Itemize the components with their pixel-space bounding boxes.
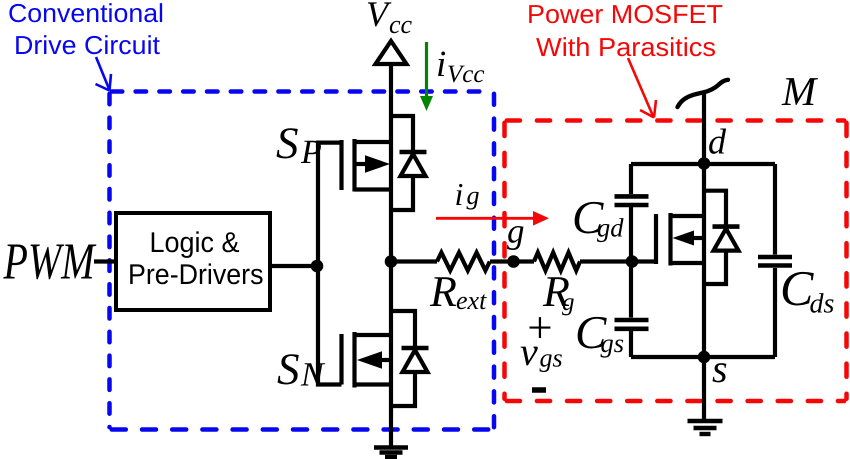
svg-text:cc: cc [389, 10, 413, 39]
svg-text:Conventional: Conventional [8, 0, 164, 28]
svg-text:Pre-Drivers: Pre-Drivers [128, 259, 264, 291]
svg-text:S: S [277, 344, 300, 394]
svg-text:Logic &: Logic & [150, 227, 240, 259]
svg-text:s: s [712, 346, 728, 391]
svg-text:R: R [429, 267, 457, 316]
svg-text:g: g [507, 212, 525, 251]
svg-text:Vcc: Vcc [447, 61, 484, 88]
svg-text:i: i [436, 44, 446, 85]
svg-text:With Parasitics: With Parasitics [536, 32, 716, 62]
svg-text:N: N [300, 357, 326, 394]
svg-text:gs: gs [601, 328, 625, 358]
svg-text:+: + [527, 303, 552, 353]
svg-text:g: g [467, 181, 480, 210]
svg-text:S: S [276, 118, 299, 168]
svg-text:Drive Circuit: Drive Circuit [14, 30, 161, 60]
svg-text:gd: gd [597, 213, 624, 243]
svg-text:d: d [708, 122, 727, 162]
svg-text:i: i [455, 176, 464, 212]
svg-text:P: P [300, 134, 322, 171]
svg-text:ext: ext [456, 286, 487, 315]
svg-text:PWM: PWM [3, 234, 97, 291]
svg-text:g: g [562, 289, 575, 316]
svg-text:M: M [781, 68, 819, 114]
svg-text:ds: ds [810, 289, 835, 320]
svg-text:Power MOSFET: Power MOSFET [527, 0, 723, 29]
